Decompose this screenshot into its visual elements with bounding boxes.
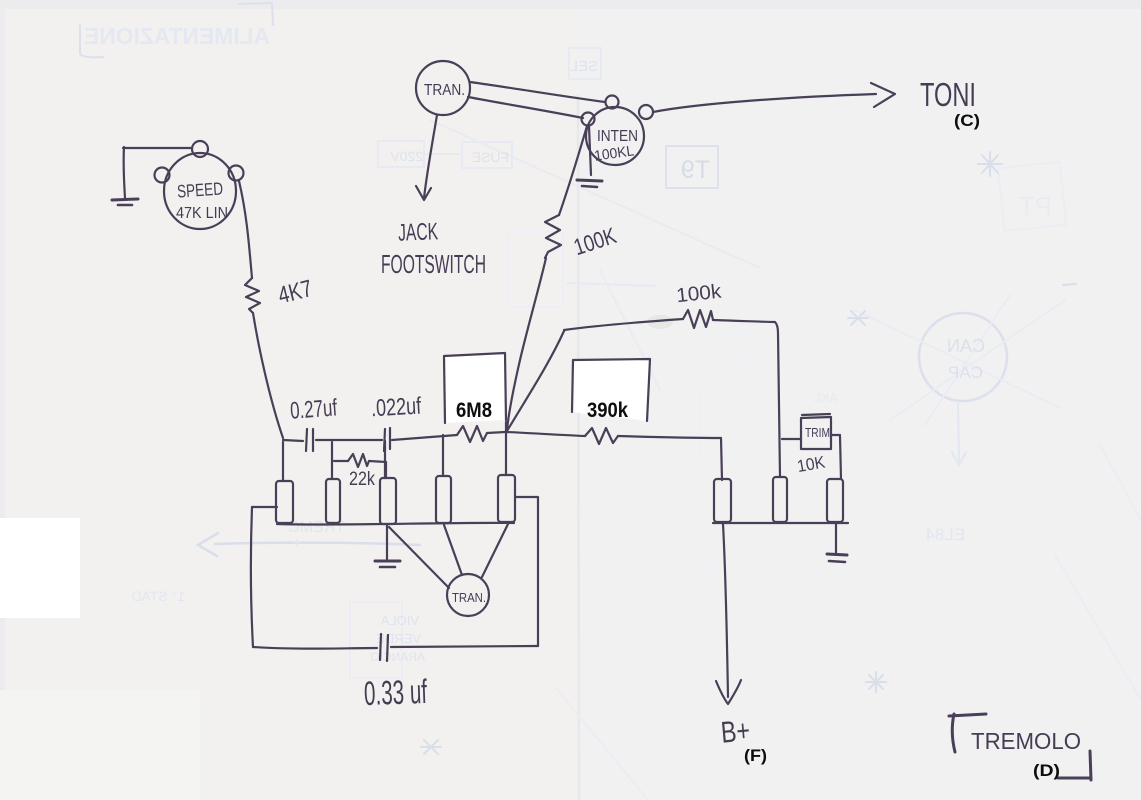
svg-text:T9: T9 — [681, 156, 710, 184]
svg-text:1° STAD: 1° STAD — [131, 588, 185, 604]
svg-text:TRIM: TRIM — [805, 425, 830, 440]
svg-text:CAP: CAP — [948, 363, 983, 382]
svg-text:ALIMENTAZIONE: ALIMENTAZIONE — [84, 23, 270, 49]
svg-text:JACK: JACK — [398, 218, 439, 246]
svg-text:6M8: 6M8 — [456, 399, 492, 422]
svg-text:FOOTSWITCH: FOOTSWITCH — [381, 249, 486, 279]
svg-text:47K LIN: 47K LIN — [176, 205, 228, 222]
svg-text:(F): (F) — [744, 746, 767, 765]
svg-text:TREMC: TREMC — [288, 519, 345, 536]
svg-text:0.33 uf: 0.33 uf — [363, 673, 428, 713]
svg-text:VIOLA: VIOLA — [380, 613, 419, 628]
svg-text:TRAN.: TRAN. — [452, 591, 486, 605]
svg-text:(C): (C) — [954, 111, 980, 130]
svg-text:AKL: AKL — [813, 390, 838, 405]
svg-text:ARANCIO: ARANCIO — [370, 650, 425, 664]
svg-text:(D): (D) — [1033, 761, 1060, 780]
svg-text:B+: B+ — [720, 714, 752, 749]
svg-text:TRAN.: TRAN. — [424, 82, 465, 99]
svg-text:220V: 220V — [390, 148, 423, 164]
svg-text:SPEED: SPEED — [176, 178, 223, 201]
svg-text:390k: 390k — [587, 399, 628, 422]
svg-text:22k: 22k — [349, 469, 375, 490]
svg-text:TONI: TONI — [920, 76, 976, 113]
svg-text:EL84: EL84 — [925, 525, 965, 544]
svg-text:TREMOLO: TREMOLO — [971, 728, 1081, 754]
svg-text:.022uf: .022uf — [370, 393, 422, 423]
svg-text:FUSE: FUSE — [472, 149, 509, 165]
svg-text:VERDE: VERDE — [376, 631, 421, 646]
svg-text:+: + — [292, 535, 301, 552]
svg-text:CAN: CAN — [947, 336, 985, 356]
svg-text:0.27uf: 0.27uf — [289, 394, 338, 424]
svg-text:PT: PT — [1019, 191, 1052, 221]
svg-text:SEL: SEL — [570, 58, 598, 75]
